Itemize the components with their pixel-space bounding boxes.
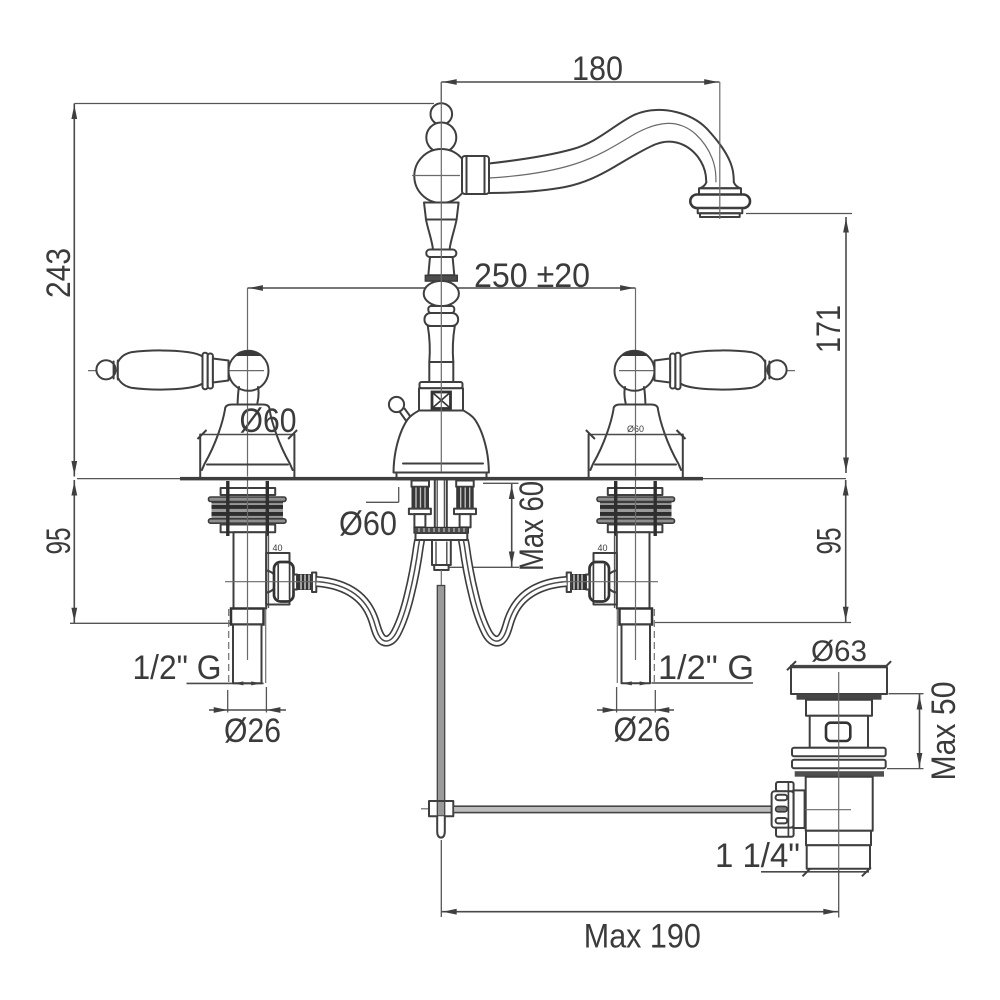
neck xyxy=(806,700,872,716)
washer plate A xyxy=(221,488,276,495)
column ring G xyxy=(428,306,454,313)
spout S-curve xyxy=(489,110,734,193)
horseshoe bracket bars xyxy=(414,527,468,540)
flange O63 xyxy=(791,667,887,694)
svg-text:1 1/4": 1 1/4" xyxy=(715,837,800,875)
180 extension / outlet centerline xyxy=(719,82,721,219)
column ball F xyxy=(424,281,459,306)
bell base xyxy=(202,405,293,471)
castellated gland nut xyxy=(772,782,805,837)
dim 250 +-20 xyxy=(248,257,636,295)
svg-text:Ø63: Ø63 xyxy=(811,635,867,668)
column flange L xyxy=(420,382,463,388)
spout outlet / aerator xyxy=(690,182,750,217)
dim 180 top xyxy=(441,50,719,102)
1/2 nut ring xyxy=(231,609,264,625)
svg-text:250 ±20: 250 ±20 xyxy=(474,257,590,295)
svg-text:243: 243 xyxy=(40,248,78,298)
junction block xyxy=(421,808,429,810)
handle head ball xyxy=(229,351,269,391)
dim 95 left xyxy=(40,480,231,623)
column cylinder K xyxy=(429,362,453,382)
lever neck xyxy=(213,359,229,383)
column section A xyxy=(424,203,459,220)
skirt under ball xyxy=(238,387,259,403)
column taper I xyxy=(428,326,455,362)
dark cap xyxy=(235,351,262,356)
O26 dimension xyxy=(209,681,286,713)
tee nut xyxy=(274,562,294,602)
spout hub xyxy=(414,149,468,203)
center tube xyxy=(434,481,436,528)
faucet centerline xyxy=(440,82,442,472)
locknut plates xyxy=(792,748,886,757)
svg-text:180: 180 xyxy=(572,50,623,88)
label O60 center leader xyxy=(339,487,399,543)
column vase B xyxy=(426,220,457,250)
pop-up rod vertical xyxy=(437,586,444,802)
square plate with O60 dim line xyxy=(200,434,295,436)
svg-text:1/2" G: 1/2" G xyxy=(133,649,222,687)
dim 95 right xyxy=(655,480,851,623)
upper body with window xyxy=(810,716,868,748)
waste centerlines xyxy=(838,672,840,869)
svg-text:40: 40 xyxy=(273,543,283,553)
svg-text:Ø26: Ø26 xyxy=(614,711,671,749)
svg-text:Max 60: Max 60 xyxy=(513,481,551,571)
column ring C xyxy=(426,250,456,258)
lower body xyxy=(806,777,873,831)
dim Max 190 bottom xyxy=(441,840,838,956)
lever body xyxy=(118,350,203,389)
svg-text:95: 95 xyxy=(40,528,78,555)
column bulge H xyxy=(425,313,459,326)
svg-text:Max 190: Max 190 xyxy=(584,918,701,956)
pop-up knob + stem xyxy=(389,397,416,427)
wide thin plate C xyxy=(209,519,287,523)
svg-text:Ø26: Ø26 xyxy=(224,712,281,750)
svg-text:Max 50: Max 50 xyxy=(925,682,963,781)
svg-text:171: 171 xyxy=(810,305,848,353)
pop-up rod guide block xyxy=(432,540,451,565)
horizontal rod xyxy=(453,806,772,812)
valve block M with cross xyxy=(419,388,463,410)
svg-text:Ø60: Ø60 xyxy=(339,505,397,543)
washer plate D xyxy=(221,525,276,533)
ribbed nut middle xyxy=(212,503,284,519)
svg-text:1/2" G: 1/2" G xyxy=(658,649,754,687)
wide thin plate B xyxy=(209,497,287,502)
dim O63 xyxy=(787,635,891,670)
nipple end ring xyxy=(312,573,316,593)
dim Max 60 xyxy=(448,481,551,571)
faucet column: finial balls xyxy=(431,103,453,125)
dim 171 right vertical xyxy=(746,214,852,474)
end knob xyxy=(96,360,115,379)
svg-text:40: 40 xyxy=(598,543,608,553)
valve body xyxy=(234,532,267,608)
column section D xyxy=(428,257,454,275)
faucet base bell xyxy=(394,411,489,480)
studs through plates xyxy=(226,481,229,536)
valve centerlines xyxy=(247,479,249,660)
dark lip xyxy=(797,694,882,700)
nipple collar xyxy=(294,575,298,590)
column dark band E xyxy=(425,275,457,281)
ribbed nipple xyxy=(297,574,312,590)
svg-text:95: 95 xyxy=(811,528,849,555)
dim 243 left vertical xyxy=(40,104,434,477)
handle centerline xyxy=(88,370,264,372)
tee stub xyxy=(266,553,289,605)
threaded studs xyxy=(409,481,431,528)
pin below block xyxy=(437,816,445,837)
supply pipe 1/2G xyxy=(233,625,262,684)
lever collar rings xyxy=(203,353,208,389)
spout connector barrel xyxy=(462,156,489,194)
dim 1 1/4" xyxy=(715,837,871,876)
flexible hose xyxy=(317,540,420,641)
dim Max 50 xyxy=(887,682,963,781)
body dome xyxy=(267,571,277,593)
hub centerline tick xyxy=(412,175,460,177)
tail sections xyxy=(806,831,871,846)
